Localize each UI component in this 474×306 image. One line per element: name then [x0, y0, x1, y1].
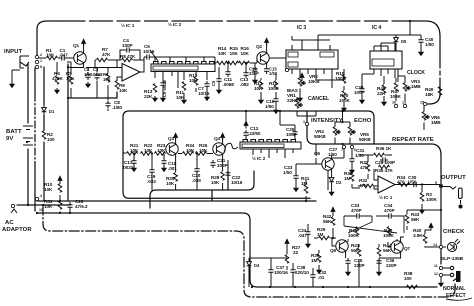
svg-text:10: 10	[39, 208, 43, 212]
svg-text:½ IC 1: ½ IC 1	[121, 22, 135, 28]
footswitch jack J3	[443, 266, 461, 282]
svg-text:EFFECT: EFFECT	[446, 293, 467, 299]
op-amp U1b (1/2 IC 1)	[378, 176, 395, 193]
node pin 14	[439, 245, 442, 248]
+9V arrow (Q1 collector)	[83, 44, 85, 52]
svg-text:10K: 10K	[218, 51, 227, 56]
svg-text:1/50: 1/50	[408, 180, 417, 185]
node pin 5	[439, 184, 442, 187]
ground (R4)	[55, 88, 59, 93]
svg-text:IC 4: IC 4	[372, 25, 381, 31]
svg-text:1M: 1M	[317, 232, 324, 237]
svg-text:8: 8	[40, 65, 42, 69]
svg-text:12: 12	[434, 272, 438, 276]
+9V arrow (R27)	[285, 239, 289, 246]
output jack J2	[443, 187, 462, 209]
wire: left edge of mid enclosure	[123, 111, 310, 198]
svg-text:3.9K: 3.9K	[413, 233, 423, 238]
IC3 pin stubs and top wires	[269, 36, 332, 88]
input jack J1	[20, 56, 29, 68]
svg-text:1M: 1M	[311, 258, 318, 263]
chip bottom-half pin stubs	[253, 149, 293, 158]
svg-text:Q2: Q2	[256, 44, 263, 49]
svg-text:50KB: 50KB	[314, 134, 326, 139]
wire: output opamp feeds	[352, 169, 378, 189]
svg-text:2: 2	[40, 53, 42, 57]
wire: Q5 emitter / pin7 links	[328, 149, 352, 190]
svg-text:.0068: .0068	[92, 72, 103, 77]
junction dots bottom	[42, 204, 44, 206]
ground (input jack)	[10, 82, 14, 87]
svg-text:10K: 10K	[166, 181, 175, 186]
wire: long mid horizontal y=111 (top of Q3/Q4 section and echo box)	[129, 111, 374, 144]
svg-text:½ IC 2: ½ IC 2	[168, 21, 182, 27]
diode D4	[247, 259, 252, 269]
wire: bottom edge of mid enclosure with corners	[150, 171, 254, 208]
node pin 2	[35, 55, 38, 58]
wire: +9V top rail from input column, across top, down right side to pin 15	[37, 21, 62, 57]
svg-text:Q5: Q5	[314, 151, 321, 156]
node NORMAL / EFFECT labels	[440, 277, 442, 281]
svg-text:R35 47K: R35 47K	[375, 168, 394, 173]
svg-text:NORMAL: NORMAL	[443, 286, 466, 292]
diode D2	[329, 175, 334, 185]
resistor R2 100	[42, 131, 46, 140]
svg-text:D1: D1	[49, 109, 55, 114]
svg-text:11: 11	[434, 264, 438, 268]
svg-text:SLP-135B: SLP-135B	[441, 256, 464, 262]
+9V arrow (R42)	[331, 207, 335, 214]
svg-text:R36 1K: R36 1K	[376, 146, 392, 151]
svg-text:56K: 56K	[411, 217, 420, 222]
svg-text:100K: 100K	[426, 197, 438, 202]
svg-text:.047: .047	[59, 53, 68, 58]
svg-text:22: 22	[293, 250, 299, 255]
svg-text:REPEAT RATE: REPEAT RATE	[392, 137, 434, 143]
svg-text:16: 16	[392, 101, 396, 105]
junction dot	[67, 66, 69, 68]
LED check indicator	[447, 239, 460, 252]
svg-text:330P: 330P	[217, 163, 228, 168]
node pin 7	[342, 145, 345, 148]
svg-text:1/50: 1/50	[283, 170, 292, 175]
ground (R13)	[153, 96, 157, 101]
wire: stub x=228 up from bottom edge	[227, 171, 229, 190]
node pin 8	[35, 65, 38, 68]
svg-text:100/16: 100/16	[274, 270, 288, 275]
svg-text:470P: 470P	[351, 208, 362, 213]
svg-text:D5: D5	[401, 39, 407, 44]
wire: AC jack to junction	[17, 204, 70, 206]
svg-text:CHECK: CHECK	[443, 229, 465, 235]
svg-text:10K: 10K	[241, 51, 250, 56]
wire: D1/R2 column	[43, 67, 45, 201]
svg-text:Q1: Q1	[73, 43, 80, 48]
wire Q5 base	[316, 144, 322, 164]
svg-text:1/50: 1/50	[265, 104, 274, 109]
svg-text:INTENSITY: INTENSITY	[311, 118, 343, 124]
svg-text:220/10: 220/10	[295, 270, 309, 275]
wire Q1 emitter to x=68 rail	[68, 64, 84, 68]
wire: flip-flop interconnects	[332, 210, 441, 287]
svg-text:47K: 47K	[102, 52, 111, 57]
svg-text:100: 100	[404, 276, 412, 281]
svg-text:ADAPTOR: ADAPTOR	[2, 227, 32, 233]
wire: IC3 support wires	[297, 74, 344, 116]
wire: echo box left edge and bottom rail to lower-right enclosure	[307, 111, 441, 264]
svg-text:IC 3: IC 3	[297, 25, 306, 31]
svg-text:47/6.3: 47/6.3	[75, 204, 88, 209]
svg-text:470P: 470P	[384, 208, 395, 213]
svg-text:½ IC 2: ½ IC 2	[252, 155, 266, 161]
svg-text:INPUT: INPUT	[4, 49, 22, 55]
wire above chip y=57	[150, 50, 215, 67]
svg-text:100: 100	[47, 137, 55, 142]
junction dot	[67, 97, 69, 99]
svg-text:D2: D2	[336, 180, 342, 185]
svg-text:BATT: BATT	[6, 129, 22, 135]
ground (C9)	[162, 88, 164, 96]
wire to C40	[318, 21, 421, 50]
svg-text:CLOCK: CLOCK	[407, 70, 425, 76]
+9V arrow (R40)	[429, 223, 433, 230]
svg-text:10K: 10K	[44, 204, 53, 209]
ground (C2)	[86, 82, 90, 87]
wire: supply bus y=200 from pin 4 to mid-section enclosure	[37, 190, 316, 201]
svg-text:1MB: 1MB	[411, 84, 421, 89]
svg-text:C5: C5	[211, 80, 216, 86]
svg-text:.082: .082	[240, 82, 249, 87]
svg-text:220P: 220P	[386, 263, 397, 268]
svg-text:10/16: 10/16	[198, 91, 210, 96]
transistor Q6	[336, 240, 348, 252]
svg-text:AC: AC	[5, 220, 14, 226]
svg-text:.22/50: .22/50	[248, 131, 261, 136]
+9V arrow (Q4)	[222, 138, 224, 143]
svg-text:Q6: Q6	[330, 248, 337, 253]
svg-text:7: 7	[341, 148, 343, 152]
node pin 1	[35, 60, 38, 63]
svg-text:.01: .01	[318, 275, 325, 280]
wire: battery dash column	[34, 68, 36, 94]
node pin 6	[285, 68, 288, 71]
svg-text:.0068: .0068	[223, 82, 235, 87]
node pin 11	[439, 266, 442, 269]
svg-text:10K: 10K	[119, 88, 128, 93]
svg-text:14: 14	[433, 243, 437, 247]
svg-text:18K: 18K	[425, 92, 434, 97]
svg-text:10K: 10K	[230, 51, 239, 56]
svg-text:CANCEL: CANCEL	[308, 96, 330, 102]
AC adaptor jack	[11, 204, 14, 207]
svg-text:100P: 100P	[122, 43, 133, 48]
svg-text:½ IC 1: ½ IC 1	[379, 194, 393, 200]
transistor Q7	[391, 241, 403, 253]
svg-text:9V: 9V	[6, 136, 13, 142]
svg-text:1/50: 1/50	[328, 152, 337, 157]
svg-text:4: 4	[40, 194, 42, 198]
+9V arrow (IC3)	[300, 73, 304, 80]
+9V arrow (Q3)	[175, 138, 177, 143]
node pin 4	[35, 197, 38, 200]
svg-text:100K: 100K	[383, 233, 395, 238]
svg-text:1M: 1M	[344, 176, 351, 181]
wire: input jack column	[27, 64, 29, 205]
wire: emitter rail x=68 down to bus	[67, 64, 69, 201]
node pin 6	[350, 145, 353, 148]
chip pin stubs below	[155, 72, 207, 89]
wire: ground return y=98 with R9 leg	[68, 92, 117, 98]
wire cross-coupling	[344, 216, 404, 242]
svg-text:10K: 10K	[44, 187, 53, 192]
+9V arrow (Q2)	[266, 43, 268, 52]
wire: AC adaptor dash-dot line to bottom dash rail y=297	[43, 205, 455, 297]
svg-text:5: 5	[435, 181, 437, 185]
svg-text:1/50: 1/50	[425, 42, 434, 47]
+9V arrow (C12)	[244, 121, 248, 128]
node pin 1	[305, 122, 308, 125]
svg-text:330P: 330P	[249, 71, 259, 76]
svg-text:10K: 10K	[211, 180, 220, 185]
svg-text:.1/50: .1/50	[112, 105, 122, 110]
wire: bus y=213 from pin 10 corner down x=250 to bottom rail y=287	[37, 213, 437, 287]
svg-text:OUTPUT: OUTPUT	[441, 175, 466, 181]
svg-text:Q7: Q7	[404, 246, 411, 251]
svg-text:Q4: Q4	[214, 136, 221, 141]
diode D1	[42, 105, 47, 115]
svg-text:D4: D4	[254, 263, 260, 268]
node pin 12	[439, 273, 442, 276]
svg-text:ECHO: ECHO	[354, 118, 372, 124]
svg-text:22K: 22K	[144, 94, 153, 99]
svg-text:1: 1	[303, 120, 305, 124]
svg-text:10/16: 10/16	[231, 180, 243, 185]
svg-text:1: 1	[40, 59, 42, 63]
capacitor C9 50/16	[160, 80, 165, 88]
svg-text:56K: 56K	[383, 248, 392, 253]
svg-text:56K: 56K	[323, 219, 332, 224]
svg-text:50KB: 50KB	[359, 137, 371, 142]
wire signal y=67	[86, 67, 122, 69]
diode D5	[394, 35, 399, 45]
svg-text:1MB: 1MB	[431, 120, 441, 125]
